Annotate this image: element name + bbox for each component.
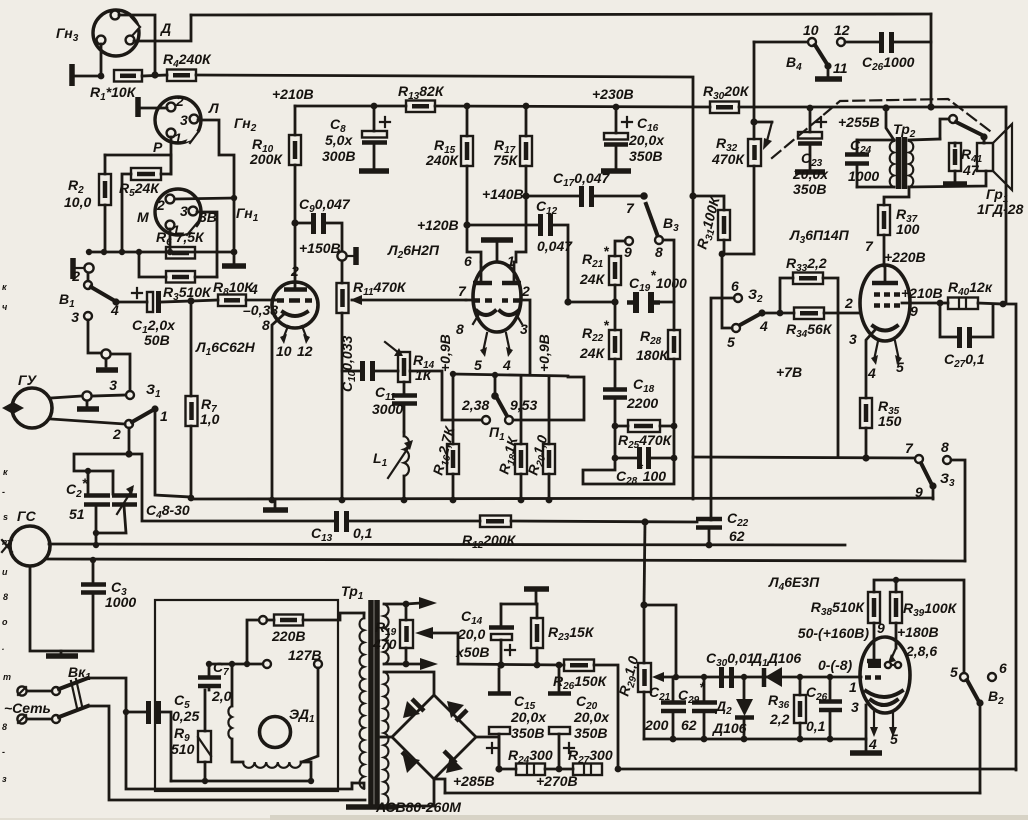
svg-text:0-(-8): 0-(-8): [818, 657, 853, 673]
L2 grids: [458, 283, 530, 374]
svg-text:R11470К: R11470К: [353, 279, 407, 298]
resistor R24 300: [508, 747, 573, 775]
svg-text:20,0х: 20,0х: [792, 166, 829, 182]
svg-text:3: 3: [180, 203, 188, 219]
svg-text:5: 5: [890, 731, 898, 747]
riser C13 node down to R29: [644, 522, 645, 605]
svg-text:о: о: [2, 617, 8, 627]
node +230V / C16: [592, 86, 634, 110]
tube L1 6S62N: [195, 222, 318, 500]
junction R1-R4 node D: [151, 71, 158, 78]
svg-text:-: -: [2, 747, 5, 757]
switch V2b: [950, 660, 1007, 793]
common bus y=500: [191, 498, 933, 499]
L4 anode resistors feed: [874, 577, 899, 592]
L3 screen pin9 wire: [901, 285, 943, 319]
svg-text:Гн3: Гн3: [56, 25, 79, 44]
ground and R23 top: [501, 589, 549, 604]
svg-text:4: 4: [110, 302, 119, 318]
svg-text:200: 200: [644, 717, 669, 733]
svg-text:8: 8: [456, 321, 464, 337]
V4 feed riser to R32 wiper: [753, 42, 756, 122]
capacitor C3 1000: [81, 557, 136, 651]
svg-text:1ГД-28: 1ГД-28: [977, 201, 1024, 217]
mechanical dashed link V4-R32-V2: [772, 99, 990, 158]
svg-text:350В: 350В: [574, 725, 607, 741]
svg-text:2: 2: [71, 268, 80, 284]
svg-text:С300,01: С300,01: [706, 650, 755, 669]
svg-text:С18: С18: [633, 376, 655, 395]
ground under pin2 junction: [233, 252, 236, 264]
capacitor C11 3000: [372, 382, 417, 432]
tube L4 6E3P: [768, 574, 910, 715]
resistor R12 200K: [462, 516, 697, 552]
svg-text:0,25: 0,25: [172, 708, 199, 724]
diode D1 D106: [741, 650, 802, 687]
svg-text:5,0х: 5,0х: [325, 132, 353, 148]
resistor R22* 24K: [579, 317, 621, 388]
voltage selector 220V: [259, 613, 364, 644]
resistor R41 47: [943, 143, 983, 184]
resistor R19 470: [372, 601, 413, 668]
svg-text:24К: 24К: [579, 345, 606, 361]
inductor L1 adjustable: [373, 432, 413, 500]
cathode line y457: [693, 454, 915, 499]
svg-text:~Сеть: ~Сеть: [4, 700, 51, 716]
resistor R38 510K: [798, 592, 885, 661]
svg-text:51: 51: [69, 506, 85, 522]
wire GN3 pin2 to top line: [119, 15, 155, 75]
resistor R40 12K: [937, 279, 1007, 309]
resistor R18 1K: [495, 376, 527, 503]
jack with ground (B1 contact3 branch): [88, 320, 130, 390]
svg-text:24К: 24К: [579, 271, 606, 287]
svg-text:R28: R28: [640, 328, 662, 347]
svg-text:100: 100: [896, 221, 920, 237]
switch B1: [59, 268, 120, 325]
svg-text:R26150К: R26150К: [553, 673, 608, 692]
svg-text:R39100К: R39100К: [903, 600, 958, 619]
svg-text:Л26Н2П: Л26Н2П: [387, 242, 440, 261]
svg-text:2: 2: [521, 283, 530, 299]
svg-text:6: 6: [464, 253, 472, 269]
svg-text:3: 3: [71, 309, 79, 325]
wire GN1 pin2 to ground bus: [175, 198, 234, 199]
resistor R30 20K: [703, 83, 750, 113]
svg-text:9: 9: [910, 303, 918, 319]
mains plug and label: [4, 686, 51, 723]
svg-text:20,0х: 20,0х: [573, 709, 610, 725]
line y664 rectifier to R23/R26: [458, 664, 564, 665]
svg-text:5: 5: [950, 664, 958, 680]
resistor R8 10K: [191, 279, 278, 318]
svg-text:R4240К: R4240К: [163, 51, 212, 70]
svg-text:0,047: 0,047: [537, 238, 573, 254]
svg-text:510: 510: [171, 741, 195, 757]
left common bus y=252: [88, 251, 234, 254]
svg-text:В3: В3: [663, 215, 679, 234]
svg-text:-: -: [2, 487, 5, 497]
node +255V: [838, 104, 890, 130]
svg-text:1000: 1000: [105, 594, 136, 610]
svg-text:1: 1: [160, 408, 168, 424]
svg-text:3: 3: [109, 377, 117, 393]
svg-text:3: 3: [520, 321, 528, 337]
switch V3: [624, 192, 679, 260]
svg-text:1К: 1К: [415, 367, 433, 383]
trimmer resistor R14 1K: [385, 342, 435, 383]
svg-text:R3456К: R3456К: [786, 321, 833, 340]
svg-text:12: 12: [834, 22, 850, 38]
resistor R34 56K: [786, 295, 860, 340]
trimmer capacitor C4 8-30: [96, 471, 190, 533]
node R3/R7/grid junction: [187, 297, 194, 304]
svg-text:8: 8: [655, 244, 663, 260]
svg-text:ЭД1: ЭД1: [289, 706, 315, 725]
svg-text:В4: В4: [786, 54, 802, 73]
svg-text:2,38: 2,38: [461, 397, 489, 413]
resistor R17 75K: [493, 103, 532, 262]
svg-text:В1: В1: [59, 291, 75, 310]
svg-text:R21*: R21*: [582, 243, 609, 270]
svg-text:1,0: 1,0: [200, 411, 220, 427]
resistor R25 470K: [612, 420, 678, 451]
wire GN1 pin1: [169, 229, 172, 252]
svg-text:470: 470: [372, 636, 397, 652]
wire GN1 pin3 riser: [197, 212, 217, 277]
svg-text:50-(+160В): 50-(+160В): [798, 625, 870, 641]
svg-text:R6 7,5К: R6 7,5К: [156, 229, 205, 248]
svg-text:20,0: 20,0: [457, 626, 485, 642]
Tr1 anode winding: [384, 672, 434, 806]
svg-text:Гн2: Гн2: [234, 115, 257, 134]
resistor R35 150: [860, 398, 902, 457]
node Z1-2 junction: [74, 428, 337, 521]
svg-text:2200: 2200: [626, 395, 658, 411]
switch Z3: [905, 439, 965, 561]
svg-text:8: 8: [2, 722, 7, 732]
svg-text:М: М: [137, 209, 149, 225]
capacitor C24 1000: [845, 137, 879, 187]
svg-text:З2: З2: [748, 286, 763, 305]
svg-text:R332,2: R332,2: [786, 255, 827, 274]
svg-text:1: 1: [507, 253, 515, 269]
resistor R31 100K: [689, 192, 754, 457]
wire GN3 pin3 to riser: [134, 15, 191, 41]
svg-text:т: т: [2, 537, 10, 547]
svg-text:2,8,6: 2,8,6: [905, 643, 937, 659]
capacitor C14 20.0x50V: [455, 604, 515, 669]
node +140V: [482, 186, 579, 202]
connector GN1: [137, 189, 259, 238]
svg-text:П1: П1: [489, 424, 505, 443]
svg-text:5: 5: [896, 359, 904, 375]
resistor R36 2.2: [768, 674, 806, 743]
svg-text:+7В: +7В: [776, 364, 802, 380]
resistor R4 240K: [163, 51, 212, 81]
potentiometer R29 1.0: [615, 605, 676, 739]
svg-text:240К: 240К: [425, 152, 459, 168]
resistor R3 510K: [139, 252, 217, 303]
capacitor C26 1000 (top): [845, 32, 931, 73]
resistor R15 240K: [425, 103, 473, 225]
svg-text:АСВ80-260М: АСВ80-260М: [375, 799, 461, 815]
svg-text:+210В: +210В: [901, 285, 943, 301]
capacitor C17 0.047: [553, 170, 644, 207]
svg-text:В2: В2: [988, 688, 1004, 707]
svg-text:2: 2: [112, 426, 121, 442]
svg-text:1000: 1000: [848, 168, 879, 184]
terminal bar left of R1: [69, 64, 75, 86]
svg-text:0,1: 0,1: [353, 525, 373, 541]
wire GN3 pin1 down: [100, 44, 103, 76]
+210V bus: [272, 86, 1006, 107]
svg-text:350В: 350В: [793, 181, 826, 197]
resistor R9 510: [171, 690, 211, 781]
motor main winding: [171, 762, 314, 784]
capacitor C12 0.047: [467, 198, 573, 302]
svg-text:10: 10: [803, 22, 819, 38]
svg-text:С7: С7: [213, 659, 229, 678]
capacitor C8 5.0x300V: [322, 103, 390, 171]
capacitor C15 20.0x350V: [487, 669, 547, 769]
svg-text:3: 3: [849, 331, 857, 347]
svg-text:11: 11: [833, 60, 848, 76]
svg-text:1: 1: [849, 679, 857, 695]
svg-text:12: 12: [297, 343, 313, 359]
svg-text:+255В: +255В: [838, 114, 880, 130]
svg-text:2: 2: [156, 197, 165, 213]
capacitor C7 2.0: [198, 659, 232, 704]
resistor R33 2.2: [777, 255, 838, 457]
svg-text:4: 4: [867, 365, 876, 381]
svg-text:З1: З1: [146, 381, 161, 400]
rectifier bridge ASV80-260M: [375, 695, 499, 815]
svg-text:Л: Л: [208, 100, 219, 116]
svg-text:+180В: +180В: [897, 624, 939, 640]
svg-text:С100,033: С100,033: [339, 336, 358, 392]
svg-text:и: и: [2, 567, 8, 577]
svg-text:С13: С13: [311, 525, 333, 544]
svg-text:R2315К: R2315К: [548, 624, 595, 643]
grid line of L4 y677: [676, 676, 861, 679]
resistor R5 24K: [119, 155, 171, 252]
capacitor C28* 100: [583, 426, 677, 487]
+285V node and bus y769: [495, 765, 516, 772]
svg-text:R36: R36: [768, 692, 790, 711]
svg-text:С14: С14: [461, 608, 483, 627]
svg-text:R38510К: R38510К: [811, 599, 866, 618]
svg-text:2: 2: [290, 263, 299, 279]
switch V4: [754, 22, 850, 79]
L3 heater arrows 4 5: [867, 341, 904, 381]
connector GN3: [56, 10, 141, 56]
svg-text:З3: З3: [940, 470, 955, 489]
transformer Tr1: [341, 583, 398, 807]
svg-text:R4012к: R4012к: [948, 279, 993, 298]
svg-text:9: 9: [877, 620, 885, 636]
L2 internal screen T: [481, 240, 513, 261]
svg-text:R12200К: R12200К: [462, 532, 517, 551]
svg-text:+150В: +150В: [299, 240, 341, 256]
svg-text:6: 6: [999, 660, 1007, 676]
svg-text:62: 62: [729, 528, 745, 544]
resistor R6 7.5K: [156, 229, 205, 259]
svg-text:9: 9: [915, 484, 923, 500]
resistor R26 150K: [553, 660, 618, 770]
resistor R10 200K: [249, 106, 301, 223]
capacitor C16 20.0x350V: [601, 107, 665, 171]
svg-text:7: 7: [458, 283, 467, 299]
svg-text:R524К: R524К: [119, 180, 160, 199]
potentiometer R32 470K: [711, 118, 772, 254]
head GS (erase): [2, 508, 50, 566]
svg-text:2,0: 2,0: [211, 688, 232, 704]
svg-text:350В: 350В: [629, 148, 662, 164]
resistor R28 180K: [636, 240, 680, 426]
tube L3 6P14P: [789, 227, 910, 398]
wire top line to right: [191, 14, 931, 15]
long bus GS top y545: [49, 544, 845, 545]
resistor R20 1.0: [524, 376, 555, 503]
svg-text:+230В: +230В: [592, 86, 634, 102]
svg-text:С48-30: С48-30: [146, 502, 190, 521]
capacitor C22 62: [696, 510, 749, 548]
capacitor C10 0.033: [339, 336, 398, 392]
head GU (universal): [2, 372, 52, 428]
svg-text:2: 2: [844, 295, 853, 311]
svg-text:8: 8: [941, 439, 949, 455]
capacitor C2* 51: [66, 471, 110, 548]
tube L2 6N2P envelope: [387, 242, 521, 332]
switch Vk1: [52, 664, 365, 800]
svg-text:6: 6: [731, 278, 739, 294]
resistor R1* 10K: [90, 70, 142, 103]
transformer Tr2: [857, 108, 916, 189]
svg-text:С270,1: С270,1: [944, 351, 985, 370]
junction C13 line to R29 branch: [641, 518, 648, 525]
capacitor C5 0.25: [123, 692, 200, 781]
svg-text:С90,047: С90,047: [299, 196, 351, 215]
svg-text:+0,9В: +0,9В: [437, 334, 453, 372]
svg-text:+120В: +120В: [417, 217, 459, 233]
potentiometer R11 470K: [337, 279, 467, 500]
svg-text:ГС: ГС: [17, 508, 37, 524]
svg-text:3: 3: [180, 112, 188, 128]
svg-text:R25470К: R25470К: [618, 432, 673, 451]
capacitor C19* 1000: [627, 267, 687, 313]
selector common line: [206, 620, 262, 667]
svg-text:+210В: +210В: [272, 86, 314, 102]
+270V bus right section: [618, 768, 1016, 771]
svg-text:+220В: +220В: [884, 249, 926, 265]
svg-text:.: .: [2, 642, 5, 652]
node +120V: [417, 217, 481, 262]
svg-text:s: s: [3, 512, 8, 522]
riser from top line to +255V bus: [930, 14, 933, 107]
svg-text:7: 7: [865, 238, 874, 254]
Tr1 heater winding: [384, 604, 406, 664]
svg-text:20,0х: 20,0х: [628, 132, 665, 148]
motor phase winding: [228, 661, 243, 762]
input jack with terminal (B1 top): [73, 258, 94, 279]
feed line to V2b from R38/R39 top: [896, 580, 964, 672]
capacitor C23 20.0x350V: [792, 105, 829, 197]
svg-text:1: 1: [174, 130, 182, 146]
svg-text:Д2: Д2: [715, 698, 732, 717]
svg-text:R22*: R22*: [582, 317, 609, 344]
svg-text:0,1: 0,1: [806, 718, 826, 734]
scan bottom edge shading: [270, 815, 1028, 820]
wire D-line to right riser: [196, 75, 693, 196]
svg-text:Л16С62Н: Л16С62Н: [195, 339, 256, 358]
capacitor C26 0.1 (lower): [806, 674, 842, 743]
svg-text:8: 8: [3, 592, 8, 602]
ghost margin text: [2, 282, 11, 784]
capacitor C21 200: [644, 674, 686, 743]
motor enclosure box: [155, 600, 338, 791]
jack on GU top wire: [51, 391, 126, 409]
svg-text:4: 4: [759, 318, 768, 334]
resistor R16 2.7K: [429, 374, 460, 503]
capacitor C30 0.01: [706, 650, 755, 688]
ground on bus y500: [263, 500, 288, 510]
node line to P1 area y373: [410, 371, 486, 420]
resistor R2 10.0: [64, 155, 111, 252]
resistor R27 300: [536, 747, 621, 789]
svg-text:9,53: 9,53: [510, 397, 537, 413]
svg-text:7: 7: [626, 200, 635, 216]
long bus GS bottom y561: [47, 559, 965, 561]
svg-text:ГУ: ГУ: [18, 372, 38, 388]
svg-text:Л46Е3П: Л46Е3П: [768, 574, 820, 593]
right border: [1006, 107, 1016, 770]
svg-text:7: 7: [905, 440, 914, 456]
connector GN2: [153, 93, 257, 155]
svg-text:L1: L1: [373, 450, 388, 469]
svg-text:150: 150: [878, 413, 902, 429]
svg-text:220В: 220В: [271, 628, 305, 644]
svg-text:3000: 3000: [372, 401, 403, 417]
svg-text:4: 4: [502, 357, 511, 373]
svg-text:62: 62: [681, 717, 697, 733]
bottom return line y793: [445, 792, 980, 795]
L2 cathodes: [456, 311, 528, 337]
svg-text:50В: 50В: [144, 332, 170, 348]
switch P1: [461, 375, 584, 443]
svg-text:т: т: [3, 672, 11, 682]
capacitor C27 0.1: [940, 303, 993, 370]
terminal bar GN2 pin2: [135, 97, 141, 117]
svg-text:2: 2: [175, 93, 184, 109]
wire Tr2 secondary to speaker: [909, 139, 940, 140]
svg-text:С19*1000: С19*1000: [629, 267, 687, 294]
capacitor C18 2200: [603, 376, 658, 426]
winding tap arrows: [406, 597, 458, 670]
resistor R13 82K: [398, 83, 445, 112]
ground GS/C3: [30, 566, 93, 656]
svg-text:20,0х: 20,0х: [510, 709, 547, 725]
svg-text:Д: Д: [160, 20, 171, 36]
svg-text:300В: 300В: [322, 148, 355, 164]
svg-text:Гн1: Гн1: [236, 205, 259, 224]
node C12 chain junction: [564, 298, 571, 305]
voltage selector 127V: [263, 647, 322, 762]
svg-text:С26: С26: [806, 684, 828, 703]
svg-text:5: 5: [474, 357, 482, 373]
svg-text:х50В: х50В: [455, 644, 489, 660]
junction pin1-bus: [98, 73, 105, 80]
